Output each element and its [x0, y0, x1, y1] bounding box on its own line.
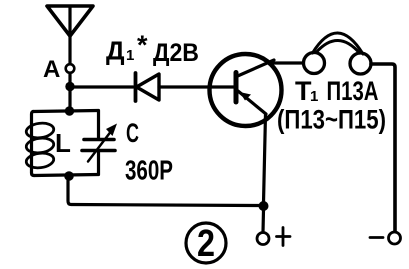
wire tank bottom to plus junction: [68, 176, 260, 206]
tank bottom wire: [34, 175, 98, 176]
plus sign: [277, 228, 291, 246]
minus terminal: [389, 232, 401, 244]
svg-text:*: *: [137, 30, 148, 60]
wire diode to transistor base: [159, 85, 234, 88]
capacitor C variable arrow: [88, 130, 112, 162]
headphones left earpiece: [304, 53, 325, 74]
wire antenna to node A: [68, 36, 71, 64]
junction dot tank top: [65, 106, 74, 115]
svg-text:360P: 360P: [125, 155, 173, 186]
svg-text:L: L: [55, 128, 71, 158]
svg-text:(П13~П15): (П13~П15): [277, 105, 386, 135]
transistor T1 emitter arrow (PNP): [240, 92, 252, 101]
svg-text:Д: Д: [106, 36, 125, 66]
headphones right earpiece: [350, 53, 371, 74]
antenna W1: [47, 6, 93, 36]
wire emitter down to junction: [264, 114, 266, 203]
transistor T1 collector lead: [237, 60, 275, 77]
junction dot tank bottom: [64, 171, 74, 181]
wire junction to plus terminal: [261, 210, 265, 232]
plus terminal: [257, 233, 269, 245]
figure number circle: [186, 223, 226, 263]
junction dot at plus node: [259, 201, 269, 211]
capacitor C bottom plate: [82, 149, 115, 153]
capacitor C top plate: [84, 138, 114, 142]
wire collector to headphones: [272, 61, 304, 64]
svg-text:Д2В: Д2В: [153, 39, 199, 67]
headphones headband outer arc: [313, 33, 364, 54]
tank left wire: [32, 112, 35, 176]
diode Д1 cathode bar: [134, 73, 138, 101]
wire right earpiece to right rail: [371, 64, 395, 231]
headphones headband inner arc: [317, 40, 360, 53]
svg-text:1: 1: [126, 47, 134, 64]
capacitor C bottom lead: [97, 152, 100, 175]
svg-text:2: 2: [197, 223, 215, 265]
junction dot at base wire: [65, 82, 74, 91]
node A: [66, 64, 75, 73]
capacitor C top lead: [97, 111, 100, 139]
wire junction to diode: [70, 85, 133, 88]
transistor T1 base bar: [234, 73, 239, 103]
wire node A down to junction: [68, 73, 71, 111]
transistor T1 emitter lead: [238, 91, 266, 114]
svg-text:A: A: [43, 56, 60, 83]
svg-text:1: 1: [310, 88, 318, 105]
svg-text:C: C: [126, 118, 139, 148]
minus sign: [370, 236, 383, 239]
inductor L coil loops: [25, 122, 54, 170]
svg-text:П13А: П13А: [327, 76, 379, 106]
diode Д1 anode triangle: [137, 74, 160, 100]
tank top wire: [33, 111, 98, 112]
transistor T1 (П13А) body circle: [210, 54, 282, 126]
